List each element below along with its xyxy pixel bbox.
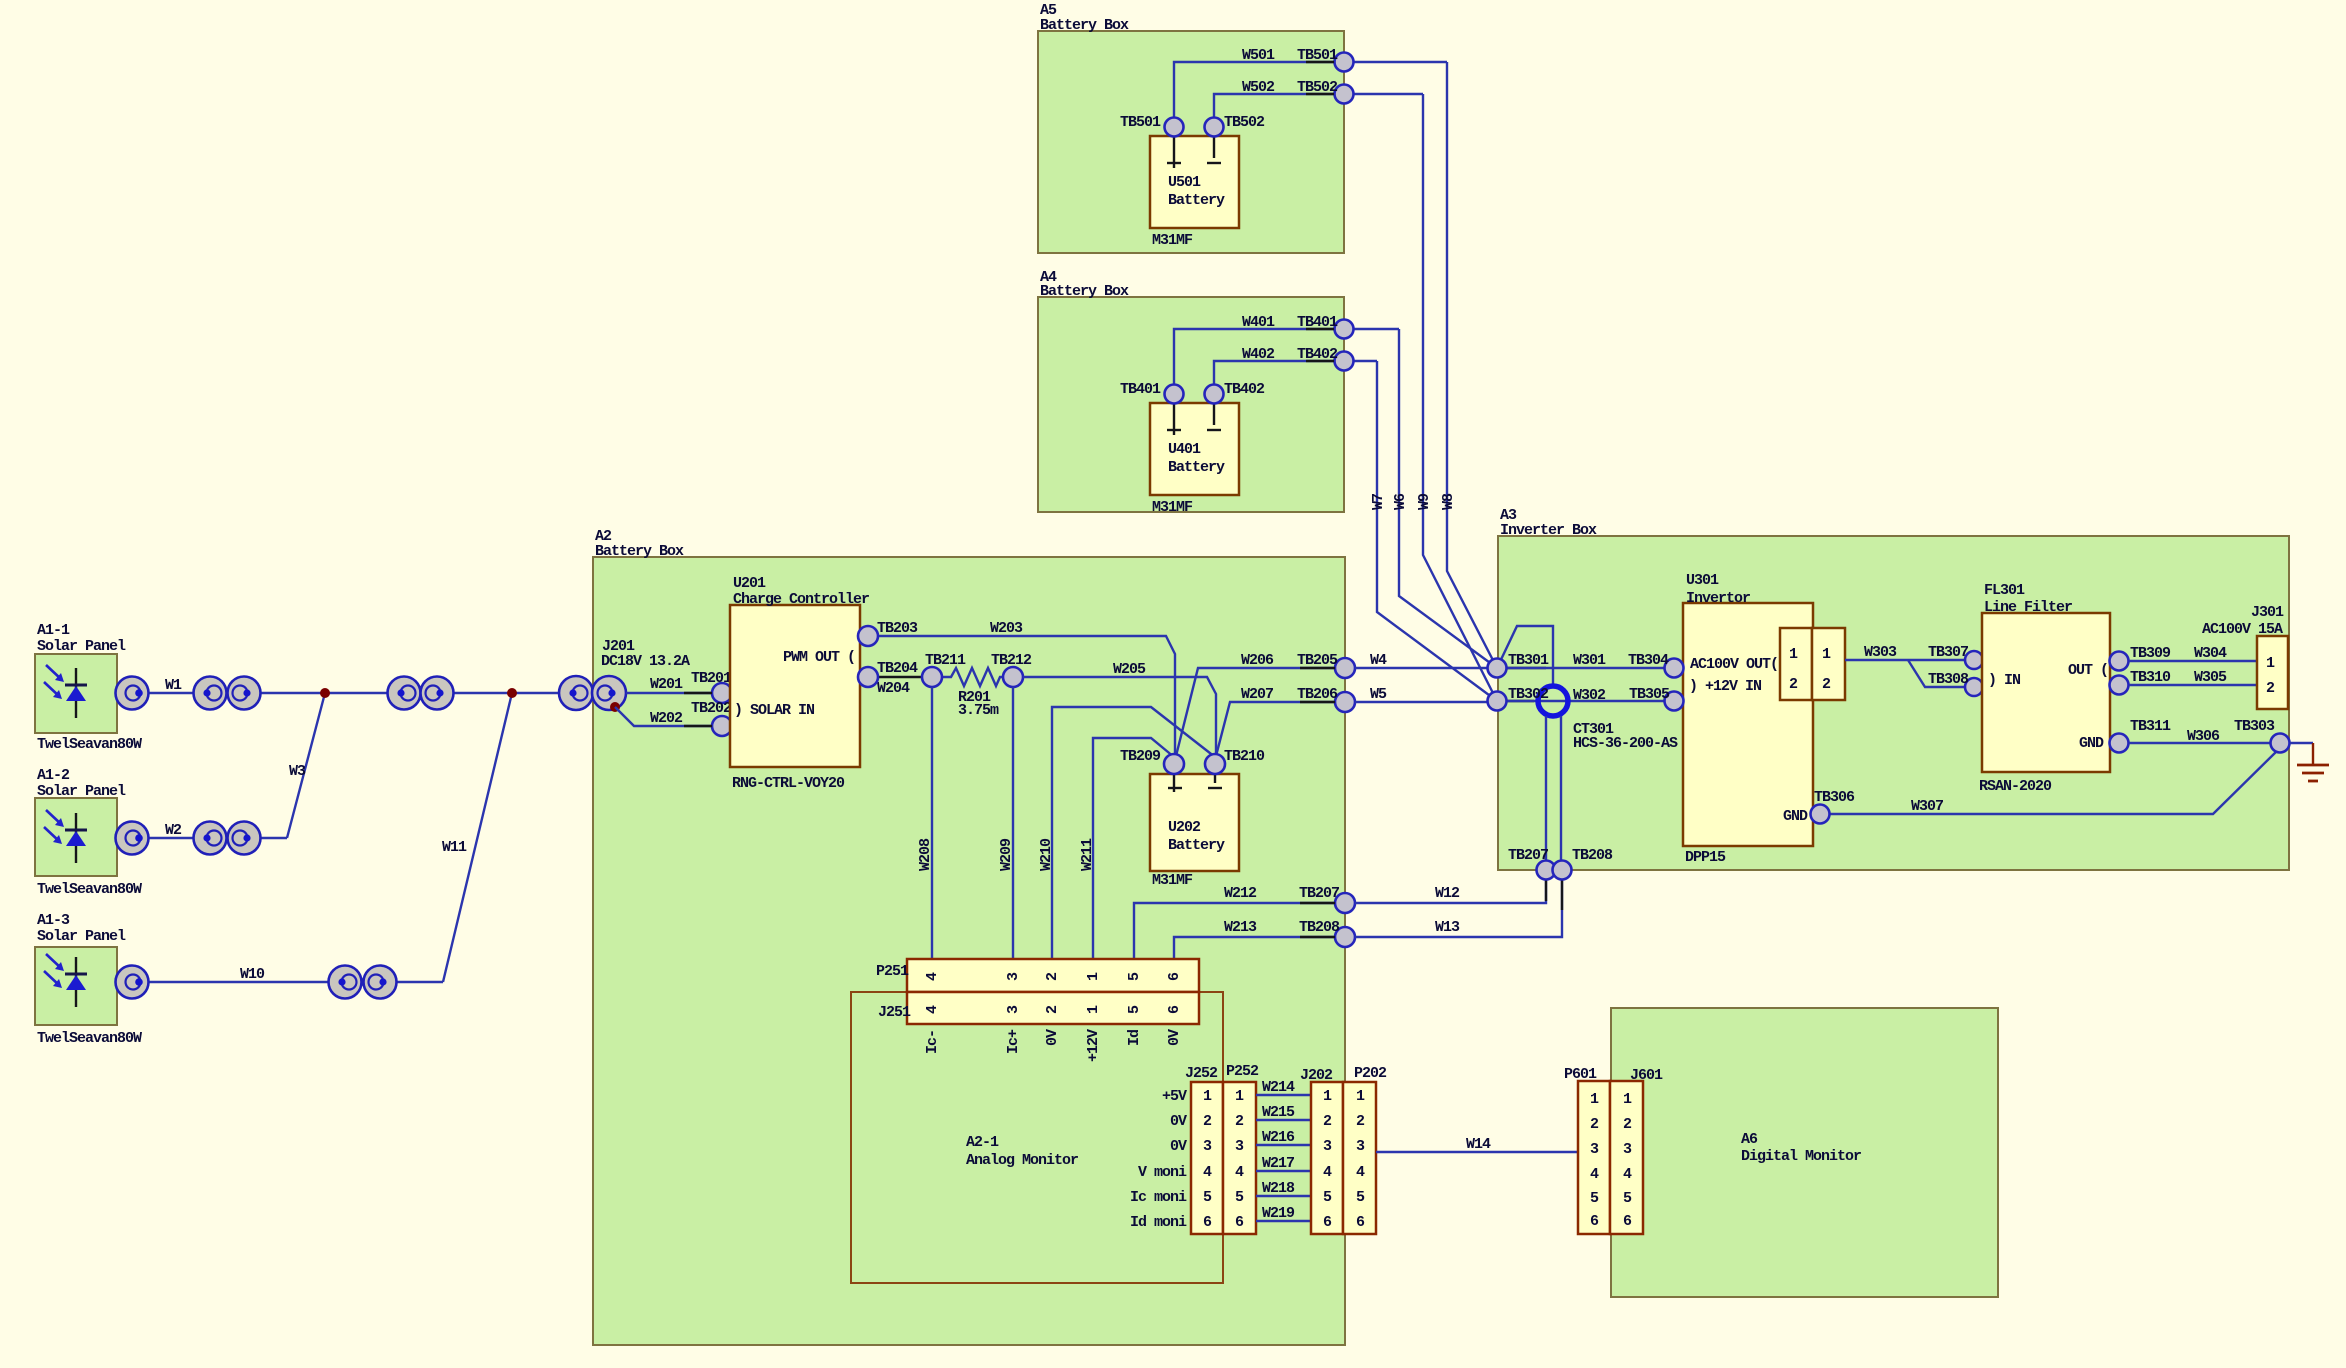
svg-text:W203: W203 bbox=[990, 620, 1023, 637]
svg-text:3: 3 bbox=[1590, 1141, 1599, 1158]
terminal TB301 bbox=[1488, 652, 1550, 678]
svg-text:6: 6 bbox=[1235, 1214, 1244, 1231]
photodiode symbol A1-2 bbox=[44, 810, 87, 863]
svg-text:Solar Panel: Solar Panel bbox=[37, 783, 126, 800]
wire W302 bbox=[1497, 687, 1665, 704]
terminal TB501 (battery side) bbox=[1120, 114, 1184, 137]
svg-text:U501: U501 bbox=[1168, 174, 1201, 191]
wire W217 bbox=[1256, 1155, 1311, 1172]
svg-text:Charge Controller: Charge Controller bbox=[733, 591, 869, 608]
svg-text:W11: W11 bbox=[442, 839, 467, 856]
resistor R201 bbox=[942, 668, 1003, 719]
svg-text:Battery: Battery bbox=[1168, 837, 1225, 854]
svg-text:5: 5 bbox=[1235, 1189, 1244, 1206]
svg-text:Id: Id bbox=[1126, 1030, 1143, 1046]
svg-text:PWM OUT (: PWM OUT ( bbox=[783, 649, 855, 666]
svg-text:V moni: V moni bbox=[1138, 1164, 1187, 1181]
svg-text:1: 1 bbox=[2266, 655, 2275, 672]
svg-text:AC100V 15A: AC100V 15A bbox=[2202, 621, 2283, 638]
monitor board A2-1 Analog Monitor bbox=[851, 992, 1223, 1283]
svg-text:W307: W307 bbox=[1911, 798, 1943, 815]
wire W202 bbox=[615, 707, 712, 727]
svg-text:3: 3 bbox=[1356, 1138, 1365, 1155]
terminal TB401 (box edge) bbox=[1297, 314, 1354, 339]
svg-text:Battery: Battery bbox=[1168, 192, 1225, 209]
svg-text:Digital Monitor: Digital Monitor bbox=[1741, 1148, 1861, 1165]
current transformer CT301 bbox=[1538, 686, 1678, 752]
svg-text:A2-1: A2-1 bbox=[966, 1134, 999, 1151]
svg-text:Battery: Battery bbox=[1168, 459, 1225, 476]
svg-text:6: 6 bbox=[1590, 1213, 1599, 1230]
svg-text:TB402: TB402 bbox=[1224, 381, 1265, 398]
wire W201 bbox=[626, 676, 712, 693]
svg-text:J252: J252 bbox=[1185, 1065, 1218, 1082]
wire W501 bbox=[1174, 47, 1447, 117]
svg-text:TB212: TB212 bbox=[991, 652, 1032, 669]
svg-text:) IN: ) IN bbox=[1988, 672, 2021, 689]
assembly A6 Digital Monitor box bbox=[1611, 1008, 1998, 1297]
terminal TB308 bbox=[1928, 671, 1983, 696]
svg-text:4: 4 bbox=[1590, 1166, 1599, 1183]
svg-text:GND: GND bbox=[1783, 808, 1808, 825]
svg-text:M31MF: M31MF bbox=[1152, 499, 1193, 516]
wire W209 bbox=[998, 687, 1015, 959]
svg-text:5: 5 bbox=[1203, 1189, 1212, 1206]
svg-text:W304: W304 bbox=[2194, 645, 2227, 662]
svg-text:TB311: TB311 bbox=[2130, 718, 2171, 735]
wire W211 bbox=[1079, 738, 1174, 959]
terminal TB307 bbox=[1928, 644, 1983, 669]
svg-text:W5: W5 bbox=[1370, 686, 1387, 703]
junction node on W1 (W11 tap) bbox=[507, 688, 517, 698]
wire W213 bbox=[1174, 919, 1335, 959]
svg-text:0V: 0V bbox=[1170, 1113, 1187, 1130]
svg-text:+12V: +12V bbox=[1085, 1029, 1102, 1062]
inverter U301 bbox=[1683, 572, 1813, 866]
svg-text:6: 6 bbox=[1623, 1213, 1632, 1230]
svg-text:Line Filter: Line Filter bbox=[1984, 599, 2072, 616]
svg-text:3: 3 bbox=[1203, 1138, 1212, 1155]
svg-text:Solar Panel: Solar Panel bbox=[37, 928, 126, 945]
wire W205 bbox=[1023, 661, 1216, 754]
svg-text:W13: W13 bbox=[1435, 919, 1460, 936]
svg-text:A6: A6 bbox=[1741, 1131, 1758, 1148]
U501 + pin bbox=[1167, 137, 1181, 168]
svg-text:M31MF: M31MF bbox=[1152, 232, 1193, 249]
svg-text:W302: W302 bbox=[1573, 687, 1606, 704]
svg-text:W6: W6 bbox=[1392, 493, 1409, 510]
svg-text:W206: W206 bbox=[1241, 652, 1274, 669]
connector J301 bbox=[2202, 604, 2288, 709]
svg-text:2: 2 bbox=[1822, 676, 1831, 693]
connector strip J601 bbox=[1610, 1067, 1663, 1234]
svg-text:W401: W401 bbox=[1242, 314, 1275, 331]
svg-text:U301: U301 bbox=[1686, 572, 1719, 589]
wire W212 bbox=[1134, 885, 1335, 959]
svg-text:1: 1 bbox=[1356, 1088, 1365, 1105]
svg-text:5: 5 bbox=[1323, 1189, 1332, 1206]
svg-text:2: 2 bbox=[1623, 1116, 1632, 1133]
svg-text:W502: W502 bbox=[1242, 79, 1275, 96]
wire W7 (TB402 to TB302) bbox=[1370, 361, 1497, 701]
connector J201 pair bbox=[559, 638, 690, 710]
connector strip J252 bbox=[1185, 1065, 1223, 1234]
svg-text:U201: U201 bbox=[733, 575, 766, 592]
svg-text:TB210: TB210 bbox=[1224, 748, 1265, 765]
terminal TB207 (A3 edge) bbox=[1508, 847, 1556, 880]
svg-text:3: 3 bbox=[1323, 1138, 1332, 1155]
terminal TB209 bbox=[1120, 748, 1184, 774]
svg-text:W210: W210 bbox=[1038, 838, 1055, 871]
svg-text:1: 1 bbox=[1203, 1088, 1212, 1105]
svg-text:TB211: TB211 bbox=[925, 652, 966, 669]
svg-text:W305: W305 bbox=[2194, 669, 2227, 686]
wire W502 bbox=[1214, 79, 1423, 117]
wire W218 bbox=[1256, 1180, 1311, 1197]
terminal TB502 (battery side) bbox=[1205, 114, 1266, 137]
svg-text:W218: W218 bbox=[1262, 1180, 1295, 1197]
svg-text:W10: W10 bbox=[240, 966, 265, 983]
wire W208 bbox=[917, 687, 934, 959]
svg-text:+5V: +5V bbox=[1162, 1088, 1187, 1105]
svg-text:2: 2 bbox=[1235, 1113, 1244, 1130]
connector pair on W10 bbox=[329, 966, 397, 999]
svg-text:1: 1 bbox=[1085, 1005, 1102, 1014]
svg-text:TB205: TB205 bbox=[1297, 652, 1338, 669]
svg-text:Invertor: Invertor bbox=[1686, 590, 1750, 607]
wire W303 bbox=[1845, 644, 1966, 687]
svg-text:TB302: TB302 bbox=[1508, 686, 1549, 703]
svg-text:W3: W3 bbox=[289, 763, 306, 780]
svg-text:TwelSeavan80W: TwelSeavan80W bbox=[37, 881, 142, 898]
wire W214 bbox=[1256, 1079, 1311, 1096]
svg-text:DC18V 13.2A: DC18V 13.2A bbox=[601, 653, 690, 670]
svg-text:W1: W1 bbox=[165, 677, 182, 694]
wire W219 bbox=[1256, 1205, 1311, 1222]
svg-text:W2: W2 bbox=[165, 822, 182, 839]
U301 output connector P bbox=[1780, 628, 1812, 700]
svg-text:Solar Panel: Solar Panel bbox=[37, 638, 126, 655]
svg-text:J301: J301 bbox=[2251, 604, 2284, 621]
svg-text:4: 4 bbox=[1356, 1164, 1365, 1181]
svg-text:6: 6 bbox=[1356, 1214, 1365, 1231]
wire W304 bbox=[2129, 645, 2256, 662]
svg-text:1: 1 bbox=[1085, 972, 1102, 981]
svg-text:Ic moni: Ic moni bbox=[1130, 1189, 1187, 1206]
terminal TB203 bbox=[858, 620, 918, 646]
svg-text:J601: J601 bbox=[1630, 1067, 1663, 1084]
wire W402 bbox=[1214, 346, 1377, 384]
svg-text:W303: W303 bbox=[1864, 644, 1897, 661]
svg-text:3: 3 bbox=[1623, 1141, 1632, 1158]
svg-text:W14: W14 bbox=[1466, 1136, 1491, 1153]
svg-text:5: 5 bbox=[1356, 1189, 1365, 1206]
wire W401 bbox=[1174, 314, 1399, 384]
battery U202 bbox=[1150, 774, 1239, 889]
svg-text:J251: J251 bbox=[878, 1004, 911, 1021]
wire W203 bbox=[878, 620, 1175, 754]
svg-text:TB501: TB501 bbox=[1120, 114, 1161, 131]
U202 + pin bbox=[1168, 775, 1182, 792]
terminal TB212 bbox=[991, 652, 1032, 687]
connector at A1-1 output bbox=[116, 677, 149, 710]
svg-text:) SOLAR IN: ) SOLAR IN bbox=[734, 702, 815, 719]
svg-text:W207: W207 bbox=[1241, 686, 1273, 703]
svg-text:Battery Box: Battery Box bbox=[595, 543, 684, 560]
assembly A1-2 Solar Panel bbox=[35, 767, 142, 898]
wire from TB301 to CT301 drop bbox=[1497, 626, 1553, 688]
svg-text:TB301: TB301 bbox=[1508, 652, 1549, 669]
svg-text:1: 1 bbox=[1590, 1091, 1599, 1108]
terminal TB211 bbox=[922, 652, 966, 687]
svg-text:U202: U202 bbox=[1168, 819, 1201, 836]
svg-text:TB204: TB204 bbox=[877, 660, 918, 677]
wire W6 (TB401 to TB301) bbox=[1392, 329, 1497, 668]
assembly A1-3 Solar Panel bbox=[35, 912, 142, 1047]
junction node at J201 output bbox=[610, 702, 620, 712]
terminal TB305 bbox=[1629, 686, 1684, 711]
terminal TB210 bbox=[1205, 748, 1265, 774]
svg-text:A1-3: A1-3 bbox=[37, 912, 70, 929]
line filter FL301 bbox=[1979, 582, 2110, 795]
U301 output connector J bbox=[1812, 628, 1845, 700]
svg-text:W212: W212 bbox=[1224, 885, 1257, 902]
terminal TB205 bbox=[1297, 652, 1355, 678]
svg-text:W209: W209 bbox=[998, 838, 1015, 871]
wire TB303 to ground bbox=[2290, 742, 2313, 744]
charge controller U201 bbox=[730, 575, 869, 792]
connector pair on W1 (second) bbox=[388, 677, 454, 710]
svg-text:TB206: TB206 bbox=[1297, 686, 1338, 703]
svg-text:DPP15: DPP15 bbox=[1685, 849, 1726, 866]
svg-text:W7: W7 bbox=[1370, 494, 1387, 510]
svg-text:P252: P252 bbox=[1226, 1063, 1259, 1080]
svg-text:W215: W215 bbox=[1262, 1104, 1295, 1121]
svg-text:W214: W214 bbox=[1262, 1079, 1295, 1096]
svg-text:4: 4 bbox=[1623, 1166, 1632, 1183]
svg-text:W201: W201 bbox=[650, 676, 683, 693]
svg-text:1: 1 bbox=[1822, 646, 1831, 663]
terminal TB208 (A2 edge) bbox=[1299, 919, 1355, 947]
wire W306 bbox=[2129, 728, 2271, 745]
svg-text:2: 2 bbox=[1044, 1005, 1061, 1014]
svg-text:W8: W8 bbox=[1440, 493, 1457, 510]
svg-text:5: 5 bbox=[1126, 1005, 1143, 1014]
svg-text:OUT (: OUT ( bbox=[2068, 662, 2108, 679]
wire W216 bbox=[1256, 1129, 1311, 1146]
terminal TB204 bbox=[858, 660, 918, 687]
terminal TB206 bbox=[1297, 686, 1355, 712]
ground symbol bbox=[2297, 743, 2329, 781]
svg-text:TB307: TB307 bbox=[1928, 644, 1968, 661]
svg-text:2: 2 bbox=[1323, 1113, 1332, 1130]
svg-text:4: 4 bbox=[1323, 1164, 1332, 1181]
svg-text:0V: 0V bbox=[1044, 1029, 1061, 1046]
terminal TB208 (A3 edge) bbox=[1553, 847, 1614, 880]
svg-text:0V: 0V bbox=[1170, 1138, 1187, 1155]
svg-text:TB208: TB208 bbox=[1572, 847, 1613, 864]
svg-text:P601: P601 bbox=[1564, 1066, 1597, 1083]
svg-text:W9: W9 bbox=[1416, 493, 1433, 510]
assembly A5 Battery Box bbox=[1038, 2, 1344, 253]
svg-text:1: 1 bbox=[1235, 1088, 1244, 1105]
terminal TB401 (battery side) bbox=[1120, 381, 1184, 404]
wire W13 bbox=[1355, 880, 1562, 937]
terminal TB501 (box edge) bbox=[1297, 47, 1354, 72]
svg-text:W4: W4 bbox=[1370, 652, 1387, 669]
wire W210 bbox=[1038, 707, 1215, 959]
svg-text:6: 6 bbox=[1323, 1214, 1332, 1231]
battery U401 bbox=[1150, 403, 1239, 516]
svg-text:Analog Monitor: Analog Monitor bbox=[966, 1152, 1078, 1169]
svg-text:W202: W202 bbox=[650, 710, 683, 727]
svg-text:1: 1 bbox=[1623, 1091, 1632, 1108]
svg-text:Ic+: Ic+ bbox=[1005, 1029, 1022, 1054]
wire W207 bbox=[1216, 686, 1335, 756]
wire W3 (diagonal) bbox=[287, 693, 325, 838]
wire W204 bbox=[877, 677, 922, 697]
terminal TB402 (box edge) bbox=[1297, 346, 1354, 371]
wire W9 (TB502 to TB302) bbox=[1416, 94, 1497, 701]
connector pair on W1 (first) bbox=[194, 677, 261, 710]
wire W2 bbox=[148, 822, 287, 839]
svg-text:TB201: TB201 bbox=[691, 670, 732, 687]
svg-text:TB502: TB502 bbox=[1224, 114, 1265, 131]
svg-text:RNG-CTRL-VOY20: RNG-CTRL-VOY20 bbox=[732, 775, 845, 792]
svg-text:2: 2 bbox=[1590, 1116, 1599, 1133]
terminal TB309 bbox=[2110, 645, 2172, 671]
svg-text:AC100V OUT(: AC100V OUT( bbox=[1690, 656, 1778, 673]
connector at A1-3 output bbox=[116, 966, 149, 999]
svg-text:TB207: TB207 bbox=[1299, 885, 1339, 902]
svg-text:3.75m: 3.75m bbox=[958, 702, 999, 719]
svg-text:2: 2 bbox=[1789, 676, 1798, 693]
U202 - pin bbox=[1208, 775, 1222, 788]
svg-text:TB306: TB306 bbox=[1814, 789, 1855, 806]
svg-text:TB305: TB305 bbox=[1629, 686, 1670, 703]
svg-text:Ic-: Ic- bbox=[924, 1030, 941, 1054]
svg-text:4: 4 bbox=[924, 1005, 941, 1014]
svg-text:5: 5 bbox=[1623, 1190, 1632, 1207]
svg-text:2: 2 bbox=[2266, 680, 2275, 697]
svg-text:W208: W208 bbox=[917, 838, 934, 871]
terminal TB302 bbox=[1488, 686, 1550, 711]
svg-text:A1-1: A1-1 bbox=[37, 622, 70, 639]
svg-text:Battery Box: Battery Box bbox=[1040, 283, 1129, 300]
assembly A2 Battery Box bbox=[593, 528, 1345, 1345]
terminal TB202 bbox=[691, 700, 732, 736]
connector strip J202 bbox=[1300, 1067, 1343, 1234]
wire W307 bbox=[1830, 748, 2280, 815]
svg-text:TwelSeavan80W: TwelSeavan80W bbox=[37, 1030, 142, 1047]
wire W301 bbox=[1497, 652, 1665, 669]
svg-text:5: 5 bbox=[1590, 1190, 1599, 1207]
svg-text:Id moni: Id moni bbox=[1130, 1214, 1187, 1231]
photodiode symbol A1-1 bbox=[44, 665, 87, 718]
wire W215 bbox=[1256, 1104, 1311, 1121]
svg-text:TB303: TB303 bbox=[2234, 718, 2275, 735]
terminal TB303 bbox=[2234, 718, 2290, 753]
svg-text:0V: 0V bbox=[1166, 1029, 1183, 1046]
terminal TB306 (U301 GND) bbox=[1811, 789, 1856, 824]
wire W5 bbox=[1355, 686, 1488, 703]
svg-text:W217: W217 bbox=[1262, 1155, 1294, 1172]
wire W14 bbox=[1376, 1136, 1578, 1153]
U401 - pin bbox=[1207, 404, 1221, 430]
terminal TB207 (A2 edge) bbox=[1299, 885, 1355, 913]
connector strip P251 bbox=[876, 959, 1199, 992]
svg-text:A1-2: A1-2 bbox=[37, 767, 70, 784]
svg-text:P251: P251 bbox=[876, 963, 909, 980]
svg-text:1: 1 bbox=[1323, 1088, 1332, 1105]
svg-text:W301: W301 bbox=[1573, 652, 1606, 669]
assembly A1-1 Solar Panel bbox=[35, 622, 142, 753]
svg-text:RSAN-2020: RSAN-2020 bbox=[1979, 778, 2052, 795]
svg-text:) +12V IN: ) +12V IN bbox=[1689, 678, 1762, 695]
svg-text:W12: W12 bbox=[1435, 885, 1460, 902]
svg-text:TB208: TB208 bbox=[1299, 919, 1340, 936]
terminal TB402 (battery side) bbox=[1205, 381, 1266, 404]
svg-text:W306: W306 bbox=[2187, 728, 2220, 745]
svg-text:U401: U401 bbox=[1168, 441, 1201, 458]
svg-text:TB309: TB309 bbox=[2130, 645, 2171, 662]
svg-text:TB203: TB203 bbox=[877, 620, 918, 637]
connector at A1-2 output bbox=[116, 822, 149, 855]
U401 + pin bbox=[1167, 404, 1181, 435]
svg-text:3: 3 bbox=[1005, 972, 1022, 981]
svg-text:TB202: TB202 bbox=[691, 700, 732, 717]
svg-text:TB401: TB401 bbox=[1120, 381, 1161, 398]
connector pair on W2 bbox=[194, 822, 261, 855]
svg-text:6: 6 bbox=[1166, 972, 1183, 981]
svg-text:Inverter Box: Inverter Box bbox=[1500, 522, 1597, 539]
wire W305 bbox=[2129, 669, 2256, 686]
svg-text:W501: W501 bbox=[1242, 47, 1275, 64]
junction node on W1 (W3 tap) bbox=[320, 688, 330, 698]
connector strip P601 bbox=[1564, 1066, 1610, 1234]
svg-text:2: 2 bbox=[1356, 1113, 1365, 1130]
terminal TB502 (box edge) bbox=[1297, 79, 1354, 104]
wire W8 (TB501 to TB301) bbox=[1440, 62, 1497, 668]
svg-text:HCS-36-200-AS: HCS-36-200-AS bbox=[1573, 735, 1678, 752]
battery U501 bbox=[1150, 136, 1239, 249]
wire W1 bbox=[148, 677, 560, 694]
svg-text:W216: W216 bbox=[1262, 1129, 1295, 1146]
svg-text:TwelSeavan80W: TwelSeavan80W bbox=[37, 736, 142, 753]
terminal TB311 bbox=[2110, 718, 2172, 753]
wire W206 bbox=[1176, 652, 1335, 756]
svg-text:J202: J202 bbox=[1300, 1067, 1333, 1084]
svg-text:3: 3 bbox=[1005, 1005, 1022, 1014]
wire W11 (diagonal) bbox=[442, 693, 512, 982]
svg-text:Battery Box: Battery Box bbox=[1040, 17, 1129, 34]
svg-text:GND: GND bbox=[2079, 735, 2104, 752]
U501 - pin bbox=[1207, 137, 1221, 163]
assembly A4 Battery Box bbox=[1038, 269, 1344, 512]
svg-text:W402: W402 bbox=[1242, 346, 1275, 363]
svg-text:FL301: FL301 bbox=[1984, 582, 2025, 599]
svg-text:3: 3 bbox=[1235, 1138, 1244, 1155]
svg-text:TB207: TB207 bbox=[1508, 847, 1548, 864]
terminal TB310 bbox=[2110, 669, 2172, 695]
assembly A3 Inverter Box bbox=[1498, 507, 2289, 870]
wire W10 bbox=[148, 966, 443, 983]
terminal TB201 bbox=[691, 670, 732, 703]
connector strip J251 bbox=[878, 992, 1199, 1024]
svg-text:6: 6 bbox=[1203, 1214, 1212, 1231]
svg-text:TB209: TB209 bbox=[1120, 748, 1161, 765]
svg-text:TB308: TB308 bbox=[1928, 671, 1969, 688]
